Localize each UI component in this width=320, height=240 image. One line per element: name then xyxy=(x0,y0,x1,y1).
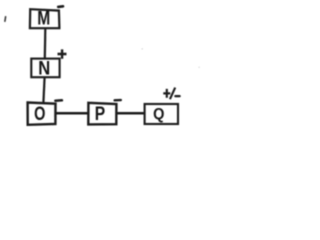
faint scan speck 2 xyxy=(198,67,199,68)
wire N to O xyxy=(43,77,44,102)
polarity minus (P) xyxy=(115,99,121,102)
wire O to P xyxy=(56,112,89,115)
block O xyxy=(28,103,56,126)
stray ink mark xyxy=(4,17,7,21)
block P xyxy=(88,103,116,125)
svg-text:Q: Q xyxy=(153,106,164,123)
polarity plus (N) xyxy=(58,49,67,58)
svg-text:N: N xyxy=(38,59,50,80)
svg-text:P: P xyxy=(95,104,106,125)
block M xyxy=(30,8,60,29)
block Q xyxy=(145,104,178,124)
polarity minus (O) xyxy=(55,99,62,102)
wire M to N xyxy=(44,29,47,59)
faint scan speck 1 xyxy=(142,48,143,49)
polarity +/- (Q) xyxy=(163,88,179,100)
polarity minus (M) xyxy=(58,5,63,8)
wire P to Q xyxy=(116,112,144,115)
svg-text:O: O xyxy=(34,104,45,125)
block N xyxy=(31,59,59,80)
svg-text:M: M xyxy=(37,8,50,29)
